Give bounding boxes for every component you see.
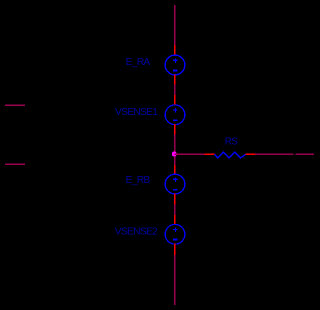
wire: left stub lower (off-page net) xyxy=(5,164,25,165)
wire: top vertical net segment xyxy=(174,5,175,45)
resistor RS body xyxy=(215,152,246,158)
wire: left stub upper (off-page net) xyxy=(5,105,25,106)
svg-text:VSENSE2: VSENSE2 xyxy=(115,227,158,238)
pin 1 of VSENSE2 (+) xyxy=(174,215,175,224)
pin 2 of VSENSE1 (-) xyxy=(174,124,175,135)
wire: RS to right, segment 1 xyxy=(255,154,294,155)
voltage source E_RA xyxy=(165,55,185,75)
pin 1 of E_RB (+) xyxy=(174,165,175,175)
pin 1 of VSENSE1 (+) xyxy=(174,95,175,105)
voltage source VSENSE1 xyxy=(165,105,185,125)
wire: junction to resistor RS xyxy=(175,154,205,155)
junction node dot xyxy=(172,151,177,156)
pin 2 of E_RA (-) xyxy=(174,75,175,85)
wire: bottom vertical net segment xyxy=(174,255,175,305)
svg-text:VSENSE1: VSENSE1 xyxy=(115,107,158,118)
svg-text:E_RA: E_RA xyxy=(126,57,151,68)
pin 1 of E_RA (+) xyxy=(174,45,175,55)
svg-text:RS: RS xyxy=(225,136,238,147)
svg-text:E_RB: E_RB xyxy=(126,175,151,186)
pin 2 of VSENSE2 (-) xyxy=(174,244,175,256)
wire: between E_RB and VSENSE2 xyxy=(174,205,175,216)
pin 1 of RS xyxy=(205,154,215,155)
wire: between E_RA and VSENSE1 xyxy=(174,85,175,96)
wire: RS to right, segment 2 xyxy=(296,154,315,155)
wire: VSENSE1 to junction node xyxy=(174,135,175,166)
voltage source E_RB xyxy=(165,174,185,194)
voltage source VSENSE2 xyxy=(165,224,185,244)
pin 2 of E_RB (-) xyxy=(174,193,175,204)
pin 2 of RS xyxy=(246,154,256,155)
